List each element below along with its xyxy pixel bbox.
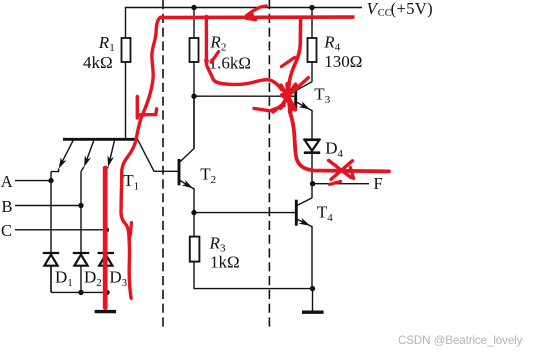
svg-text:(+5V): (+5V) [391, 0, 433, 18]
resistor R1 [122, 38, 131, 62]
label 1kohm [210, 252, 240, 271]
svg-text:C: C [1, 221, 12, 240]
wire rail to R1 [125, 7, 127, 38]
svg-text:D: D [84, 268, 96, 287]
ground right [302, 311, 324, 314]
label Vcc(+5V) [367, 0, 434, 19]
svg-text:3: 3 [325, 94, 331, 106]
red annotation hook mark near T1 [137, 97, 156, 119]
label D4 [325, 138, 343, 160]
label T2 [200, 164, 216, 186]
svg-text:4: 4 [327, 212, 333, 224]
wire diode bottom rail [51, 266, 106, 293]
red annotation tick near R4 [281, 57, 294, 66]
wire R2 to T2 collector [193, 62, 195, 149]
svg-text:2: 2 [221, 42, 227, 54]
svg-text:T: T [200, 164, 211, 183]
svg-text:F: F [374, 174, 383, 193]
wire to ground left [105, 292, 107, 310]
svg-text:1kΩ: 1kΩ [210, 252, 240, 271]
node D3 bottom junction [104, 290, 109, 295]
transistor T4 collector [297, 184, 312, 206]
svg-text:D: D [109, 268, 121, 287]
node A junction [48, 178, 53, 183]
wire A column [50, 172, 52, 253]
red annotation scribble at T3 base [254, 78, 308, 112]
red annotation tick on F wire [330, 181, 341, 184]
wire rail to R4 [311, 8, 313, 39]
label T3 [314, 85, 330, 107]
resistor R4 [308, 38, 317, 62]
transistor T1 base bar [63, 138, 138, 141]
wire input B [15, 205, 81, 207]
label R2 [209, 33, 226, 54]
red annotation main top stroke [160, 15, 355, 19]
svg-text:D: D [55, 268, 67, 287]
red annotation thick stroke over D3 column [103, 168, 108, 308]
transistor T4 emitter [297, 218, 312, 289]
label A [1, 172, 13, 191]
transistor T1 emitter 3 [106, 140, 115, 171]
node Vcc junction above R2 [191, 5, 196, 10]
label 4kohm [83, 53, 113, 72]
label 130ohm [324, 52, 362, 71]
node D2 bottom junction [78, 290, 83, 295]
svg-text:1: 1 [134, 181, 140, 193]
label D3 [109, 268, 127, 290]
svg-text:R: R [209, 234, 221, 253]
transistor T3 collector [297, 62, 312, 90]
svg-text:R: R [323, 32, 335, 51]
transistor T3 base bar [294, 84, 297, 109]
node B junction [78, 203, 83, 208]
label T1 [123, 171, 139, 193]
node Vcc junction above R4 [309, 5, 314, 10]
svg-text:R: R [209, 33, 221, 52]
node T2 emitter junction [191, 210, 196, 215]
svg-text:R: R [98, 33, 110, 52]
svg-text:2: 2 [211, 174, 217, 186]
label F [374, 174, 383, 193]
wire input A [15, 180, 51, 182]
dashed separator right [268, 0, 270, 331]
svg-text:D: D [325, 138, 337, 157]
label T4 [317, 203, 333, 225]
node T2 collector junction [191, 94, 196, 99]
diode D3 [98, 253, 114, 292]
watermark CSDN [398, 334, 523, 347]
wire to ground right [312, 289, 314, 311]
transistor T4 base bar [295, 200, 298, 226]
node T4 emitter junction [310, 286, 315, 291]
diode D4 [304, 140, 320, 184]
transistor T2 collector [180, 96, 194, 162]
svg-text:T: T [314, 85, 325, 104]
resistor R2 [190, 38, 199, 62]
red annotation arrowhead on top stroke [245, 6, 266, 20]
dashed separator left [162, 0, 164, 331]
wire C column [105, 172, 107, 253]
wire T1 collector to T2 base [138, 140, 178, 172]
svg-text:A: A [1, 172, 13, 191]
transistor T3 emitter [297, 101, 312, 139]
svg-text:2: 2 [96, 277, 102, 289]
label C [1, 221, 12, 240]
wire R3 to bottom [194, 262, 313, 289]
svg-text:130Ω: 130Ω [324, 52, 362, 71]
wire Vcc top rail [126, 7, 363, 9]
svg-text:4: 4 [337, 148, 343, 160]
svg-text:B: B [2, 197, 13, 216]
svg-text:CSDN @Beatrice_lovely: CSDN @Beatrice_lovely [398, 334, 523, 347]
ground left [95, 310, 116, 313]
wire R1 to T1 base [125, 62, 127, 140]
red annotation path R2 to T3 [207, 67, 281, 90]
transistor T1 emitter 2 [81, 140, 94, 171]
label R4 [323, 32, 341, 53]
node C junction [104, 227, 109, 232]
svg-text:1: 1 [67, 277, 73, 289]
diode D1 [43, 253, 59, 292]
svg-text:4kΩ: 4kΩ [83, 53, 113, 72]
wire T2 collector to T3 base [194, 95, 294, 97]
diode D2 [73, 253, 89, 292]
svg-text:T: T [317, 203, 328, 222]
label R3 [209, 234, 227, 255]
wire rail to R2 [193, 8, 195, 39]
red annotation left squiggle down [121, 17, 161, 298]
red annotation X scribble near F [329, 160, 354, 179]
label B [2, 197, 13, 216]
label D1 [55, 268, 73, 290]
label D2 [84, 268, 102, 290]
resistor R3 [190, 237, 200, 262]
wire T2 emitter to T4 base [194, 212, 295, 214]
node F junction [310, 181, 315, 186]
wire input C [15, 229, 106, 231]
transistor T2 base bar [178, 159, 181, 185]
svg-text:T: T [123, 171, 134, 190]
svg-text:3: 3 [122, 277, 128, 289]
wire T2 emitter to R3 [193, 213, 195, 237]
wire B column [80, 172, 82, 253]
red annotation arrow at R2 [204, 17, 219, 69]
label 1.6kohm [209, 53, 251, 72]
transistor T1 emitter 1 [51, 140, 73, 171]
red annotation path T3 to F [290, 111, 389, 171]
red annotation branch down at R4 [288, 19, 300, 94]
wire output F [313, 183, 369, 185]
transistor T2 emitter [180, 180, 194, 213]
red annotation fork tick near D3 [129, 223, 131, 240]
label R1 [98, 33, 115, 54]
